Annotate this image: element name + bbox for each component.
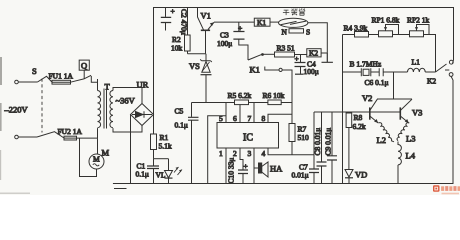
- wire to K2 contact: [424, 35, 436, 73]
- svg-text:5.1k: 5.1k: [159, 142, 172, 151]
- switch Q blade: [84, 75, 98, 82]
- pot RP2 1k: [410, 31, 424, 37]
- fuse FU2 1A: [64, 136, 77, 140]
- capacitor C1 0.1u: [153, 159, 155, 184]
- inductor L2: [379, 123, 395, 142]
- rectifier UR: [131, 104, 154, 126]
- wire main vertical: [342, 35, 344, 184]
- wire: [71, 79, 84, 82]
- transformer T core: [104, 89, 107, 129]
- svg-text:0.1μ: 0.1μ: [136, 170, 149, 179]
- svg-text:R5 6.2k: R5 6.2k: [228, 91, 252, 100]
- wire top rail: [154, 8, 454, 115]
- svg-text:3: 3: [248, 149, 252, 158]
- svg-text:UR: UR: [137, 80, 149, 90]
- wire base node: [188, 53, 206, 55]
- wire: [19, 81, 38, 83]
- cap plate stub: [322, 53, 333, 62]
- wire Q lead: [83, 70, 85, 79]
- svg-text:VS: VS: [189, 61, 200, 71]
- capacitor C4 100u: [300, 55, 302, 74]
- inductor L3: [397, 123, 409, 141]
- IC box: [217, 123, 279, 149]
- pin 3: [253, 148, 255, 184]
- transformer T secondary: [113, 88, 142, 104]
- svg-text:K1: K1: [250, 65, 260, 75]
- svg-text:10k: 10k: [171, 44, 183, 53]
- transformer T primary: [97, 79, 99, 91]
- resistor R6 10k: [268, 100, 281, 105]
- node N terminal: [15, 135, 19, 139]
- wire: [393, 34, 410, 36]
- inductor L1: [408, 68, 426, 72]
- wire base link: [314, 111, 400, 113]
- inductor L4: [398, 142, 401, 165]
- motor M: [97, 138, 99, 154]
- pin 6: [239, 105, 241, 123]
- wire collector rail: [377, 98, 412, 100]
- svg-text:V1: V1: [201, 11, 211, 21]
- switch K1 contact: [248, 54, 262, 60]
- svg-text:0.1μ: 0.1μ: [175, 121, 188, 130]
- wire pin4 node: [292, 154, 314, 156]
- svg-text:0.01μ: 0.01μ: [292, 171, 309, 180]
- svg-text:RP2 1k: RP2 1k: [407, 16, 430, 25]
- capacitor C5 0.1u: [191, 103, 193, 184]
- svg-text:RP1 6.8k: RP1 6.8k: [372, 16, 400, 25]
- svg-text:C5: C5: [175, 107, 184, 116]
- svg-text:N: N: [282, 28, 288, 37]
- resistor R3 51: [275, 52, 295, 57]
- svg-text:7: 7: [248, 114, 252, 123]
- wire pin5 to ground: [208, 116, 226, 184]
- svg-text:~36V: ~36V: [116, 96, 136, 106]
- svg-text:B 1.7MHz: B 1.7MHz: [350, 60, 382, 69]
- svg-text:VL: VL: [156, 171, 166, 180]
- svg-text:4: 4: [262, 149, 266, 158]
- svg-text:2: 2: [233, 149, 237, 158]
- svg-text:S: S: [306, 28, 310, 37]
- svg-text:1: 1: [219, 149, 223, 158]
- wire reed to K2: [308, 23, 327, 53]
- svg-text:+: +: [295, 54, 299, 63]
- capacitor C10 33u: [238, 170, 248, 174]
- fuse FU1 1A: [52, 80, 71, 84]
- wire node: [154, 158, 169, 160]
- svg-text:K2: K2: [309, 49, 318, 58]
- svg-text:HA: HA: [270, 164, 283, 174]
- svg-text:C8 0.01μ: C8 0.01μ: [313, 128, 322, 156]
- pin 1: [225, 148, 227, 184]
- pin 8: [268, 114, 292, 122]
- wire motor return: [80, 138, 97, 176]
- pin 5: [225, 103, 227, 123]
- svg-text:K1: K1: [257, 18, 266, 27]
- label reed (drawn CJK gan-huang-guan): [283, 9, 305, 16]
- svg-text:6: 6: [233, 114, 237, 123]
- pot RP1 6.8k: [379, 31, 393, 37]
- svg-text:R6 10k: R6 10k: [263, 91, 285, 100]
- pin 7: [253, 103, 255, 123]
- svg-text:R8: R8: [354, 113, 363, 122]
- capacitor C9 0.01u: [331, 112, 333, 184]
- svg-text:M: M: [102, 148, 110, 158]
- buzzer HA: [254, 167, 259, 169]
- svg-text:+: +: [171, 7, 175, 16]
- svg-text:100μ: 100μ: [304, 67, 319, 76]
- magnet bar: [289, 29, 304, 33]
- svg-text:C9 0.01μ: C9 0.01μ: [324, 128, 333, 156]
- wire: [270, 21, 279, 23]
- wire: [77, 137, 98, 139]
- crystal B 1.7MHz: [343, 71, 362, 73]
- wire 102 rail: [192, 102, 235, 104]
- wire: [371, 71, 379, 73]
- wire: [295, 54, 307, 56]
- wire right border lower: [452, 80, 454, 184]
- wire: [321, 52, 327, 54]
- scan edge artifacts: [0, 57, 30, 194]
- diode VD: [345, 170, 353, 178]
- svg-text:VD: VD: [355, 170, 367, 180]
- wire: [425, 71, 435, 73]
- wire cap top rail: [314, 111, 343, 113]
- svg-text:FU2 1A: FU2 1A: [58, 127, 83, 136]
- svg-text:T: T: [105, 82, 111, 92]
- svg-text:L1: L1: [412, 58, 421, 67]
- resistor R8 6.2k: [346, 113, 352, 128]
- svg-text:FU1 1A: FU1 1A: [49, 72, 74, 81]
- svg-text:K2: K2: [427, 77, 436, 86]
- resistor R7 510: [291, 103, 293, 124]
- pin 2: [240, 148, 243, 170]
- svg-text:8: 8: [262, 114, 266, 123]
- wire RP rail: [343, 34, 355, 36]
- svg-text:L2: L2: [377, 135, 386, 145]
- resistor R2 10k: [187, 8, 189, 54]
- svg-text:IC: IC: [243, 133, 253, 144]
- svg-text:100μ: 100μ: [217, 39, 232, 48]
- wire: [383, 71, 407, 73]
- svg-text:Q: Q: [81, 61, 87, 71]
- breaker box Q: [79, 60, 89, 70]
- svg-text:V2: V2: [362, 93, 372, 103]
- capacitor C6 0.1u: [379, 68, 383, 76]
- pin 4: [268, 148, 292, 155]
- switch S blade: [38, 76, 53, 82]
- transistor V1: [198, 8, 204, 30]
- reed switch: [279, 18, 308, 27]
- svg-text:+: +: [244, 162, 248, 171]
- relay coil K1: [254, 18, 270, 26]
- svg-text:L4: L4: [406, 151, 416, 161]
- svg-text:C10 33μ: C10 33μ: [227, 158, 236, 184]
- svg-text:+: +: [238, 24, 242, 33]
- switch K2 contact: [436, 64, 450, 72]
- wire emitter to K1: [214, 21, 254, 23]
- contact lower throw: [265, 67, 292, 103]
- wire: [19, 136, 38, 138]
- gang dashed link: [41, 79, 43, 133]
- svg-text:6.2k: 6.2k: [353, 122, 366, 131]
- svg-text:–220V: –220V: [4, 105, 29, 115]
- svg-text:5: 5: [219, 114, 223, 123]
- svg-text:C6 0.1μ: C6 0.1μ: [365, 78, 389, 87]
- resistor R4 3.9k: [355, 32, 369, 38]
- relay coil K2: [307, 49, 321, 57]
- capacitor C3 100u: [239, 22, 248, 60]
- svg-text:L3: L3: [406, 134, 415, 144]
- wire UR minus to ground: [130, 115, 132, 184]
- capacitor C2 470u: [165, 8, 167, 31]
- wire: [369, 34, 379, 36]
- zener VS: [200, 59, 212, 62]
- svg-text:S: S: [32, 66, 37, 76]
- switch S2 blade: [37, 132, 64, 138]
- svg-text:M: M: [93, 155, 100, 164]
- wire bottom rail: [113, 183, 454, 185]
- LED VL: [168, 159, 170, 171]
- resistor R1 5.1k: [153, 115, 155, 135]
- svg-text:R3 51: R3 51: [277, 44, 295, 53]
- svg-text:510: 510: [298, 133, 310, 142]
- capacitor C7 0.01u: [313, 155, 315, 184]
- wire osc feed: [393, 72, 395, 99]
- watermark logo: [433, 185, 460, 194]
- transistor V2: [369, 107, 371, 119]
- svg-text:R4 3.9k: R4 3.9k: [344, 24, 368, 33]
- svg-text:V3: V3: [412, 108, 422, 118]
- ground: [114, 188, 127, 190]
- node L terminal: [15, 80, 19, 84]
- LED arrows: [174, 167, 182, 175]
- transistor V3: [399, 107, 401, 119]
- resistor R5 6.2k: [235, 100, 249, 105]
- capacitor C8 0.01u: [321, 112, 323, 184]
